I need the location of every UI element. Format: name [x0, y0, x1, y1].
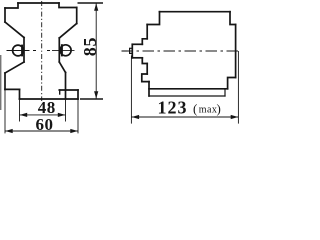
- right view: right body edge: [235, 25, 237, 78]
- dim 123 left extension line: [130, 56, 132, 124]
- left view: top-left step: [5, 3, 18, 8]
- right view: shaft bottom: [132, 57, 142, 59]
- svg-text:123: 123: [158, 98, 188, 118]
- dim 85 bottom extension line: [80, 98, 103, 100]
- right view: top-left step: [147, 12, 159, 25]
- right view: right bottom step: [228, 78, 236, 89]
- dim 48 line: [20, 114, 66, 116]
- right view: base bottom: [149, 95, 225, 97]
- right view: top-right step: [230, 12, 236, 25]
- dim 123 right extension line: [237, 51, 239, 124]
- left screw head circle: [13, 45, 24, 56]
- dim 60 line: [5, 130, 78, 132]
- dim 123 arrowheads: [132, 115, 140, 119]
- svg-text:max: max: [199, 105, 217, 116]
- right view: left body edge lower: [146, 64, 148, 75]
- left view: upper-right taper: [59, 24, 76, 39]
- right view: top plateau: [160, 11, 231, 13]
- left view vertical centerline: [41, 1, 43, 101]
- svg-text:60: 60: [36, 115, 54, 134]
- left view: left boss edge: [19, 89, 21, 99]
- dim 48 left extension line: [19, 100, 21, 122]
- svg-text:85: 85: [80, 37, 100, 57]
- left view: lower-right vertical edge: [65, 73, 67, 100]
- dim 48 arrowheads: [20, 113, 28, 117]
- dim 85 top extension line: [78, 2, 104, 4]
- left view: right flange stub: [59, 90, 61, 94]
- left view horizontal centerline dashes: [33, 50, 50, 52]
- left view: upper-right vertical edge: [76, 8, 78, 24]
- right view: shaft end: [131, 44, 133, 58]
- left view: right waist edge: [58, 38, 60, 62]
- right screw collar bar: [61, 45, 63, 55]
- scan artifact: page edge line: [0, 55, 2, 110]
- right view: bushing top: [142, 39, 147, 45]
- svg-text:): ): [217, 101, 221, 116]
- left view: bottom edge: [20, 98, 79, 100]
- right view: shaft top: [132, 43, 142, 45]
- svg-text:(: (: [193, 101, 197, 116]
- right view horizontal centerline: [122, 50, 242, 52]
- left view: upper-left taper: [5, 22, 24, 38]
- right view: bushing bottom: [142, 58, 147, 64]
- right screw axis line: [52, 49, 75, 51]
- dim 60 left extension line: [4, 89, 6, 133]
- dim 123 line: [131, 116, 238, 118]
- right view: body bottom line: [149, 88, 228, 90]
- left screw axis line: [7, 50, 30, 52]
- dim 85 arrowheads: [5, 3, 98, 133]
- svg-text:48: 48: [38, 98, 56, 117]
- left view: top plateau: [18, 2, 59, 4]
- left view: right flange outer edge: [77, 90, 79, 99]
- left view: lower-right flare: [59, 62, 65, 73]
- left view: left flange bottom: [5, 88, 20, 90]
- right view: base right edge: [224, 89, 226, 96]
- left view: top-right step: [59, 3, 77, 8]
- dim 85 line: [95, 3, 97, 99]
- left view: lower-left vertical edge: [4, 73, 6, 89]
- left view: upper-left vertical edge: [4, 8, 6, 22]
- left view: lower-left flare: [5, 62, 24, 73]
- right view: left foot step: [142, 74, 149, 82]
- right view: left foot edge: [148, 82, 150, 96]
- right view: shaft tip stub: [130, 48, 133, 53]
- left view: left waist edge: [23, 38, 25, 63]
- right view: left body edge upper: [146, 25, 148, 39]
- dim 48 right extension line: [65, 100, 67, 122]
- right screw head circle: [60, 45, 71, 56]
- dim 60 arrowheads: [5, 129, 13, 133]
- left screw collar bar: [21, 46, 23, 56]
- dim 60 right extension line: [77, 99, 79, 133]
- left view: right flange bottom: [59, 89, 78, 91]
